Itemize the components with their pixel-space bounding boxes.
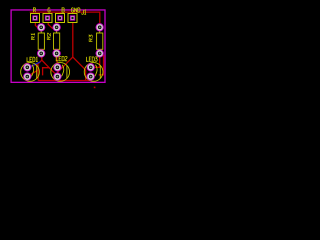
wire R3 to LED3 [91, 53, 100, 67]
wire GND vertical left [37, 65, 39, 81]
pad LED1 top [24, 64, 31, 71]
wire branch horizontal at LED2 left [43, 68, 49, 76]
pad LED3 top [87, 64, 94, 71]
stray red marker dot [94, 87, 96, 89]
wire stub LED3 cathode [90, 77, 92, 81]
wire R2 to LED2 [56, 53, 59, 67]
resistor R3 [89, 29, 103, 52]
LED3 footprint [84, 57, 103, 81]
pad J1-1 R [31, 14, 40, 23]
wire GND bottom bus [38, 80, 92, 82]
pad J1-3 B [56, 14, 65, 23]
wire stub pad4 GND [72, 12, 74, 14]
wire pad1 to R1 [35, 22, 41, 29]
wire R1 branch down-left [37, 60, 42, 65]
wire R3 right-side route [99, 54, 104, 75]
pad R3 top [96, 24, 103, 31]
connector J1 silk label R [33, 8, 35, 12]
pad LED3 bottom [87, 73, 94, 80]
pad R1 top [38, 24, 45, 31]
pad R2 top [53, 24, 60, 31]
pad LED1 bottom [24, 73, 31, 80]
resistor R2 [47, 29, 60, 52]
wire pad2 to R2 [48, 22, 56, 29]
wire blue back-copper to LED1 [27, 62, 40, 68]
board outline [11, 10, 105, 82]
wire to LED1 anode [29, 65, 35, 67]
pad R3 bottom [96, 50, 103, 57]
wire GND left leg to LED2 [58, 57, 73, 77]
background [0, 0, 117, 96]
LED1 footprint [21, 57, 40, 81]
pad LED2 top [54, 64, 61, 71]
wire LED1 cathode diagonal [27, 70, 38, 77]
pad R2 bottom [53, 50, 60, 57]
wire junction horizontal [34, 64, 38, 66]
connector J1 silk label GND [71, 8, 80, 12]
wire stub pad3 B [59, 12, 61, 15]
connector J1 designator [82, 10, 87, 14]
pad LED2 bottom [54, 73, 61, 80]
pad J1-4 GND [68, 14, 77, 23]
wire net B top trace [30, 12, 100, 25]
pad R1 bottom [38, 50, 45, 57]
wire GND vertical from pad4 [72, 22, 74, 58]
pad J1-2 G [43, 14, 52, 23]
resistor R1 [31, 29, 44, 52]
LED2 footprint [51, 56, 70, 81]
wire R1 to LED2 diagonal [42, 55, 58, 76]
wire GND right leg [73, 57, 86, 80]
connector J1 silk label G [48, 8, 50, 12]
connector J1 silk label B [62, 8, 64, 12]
